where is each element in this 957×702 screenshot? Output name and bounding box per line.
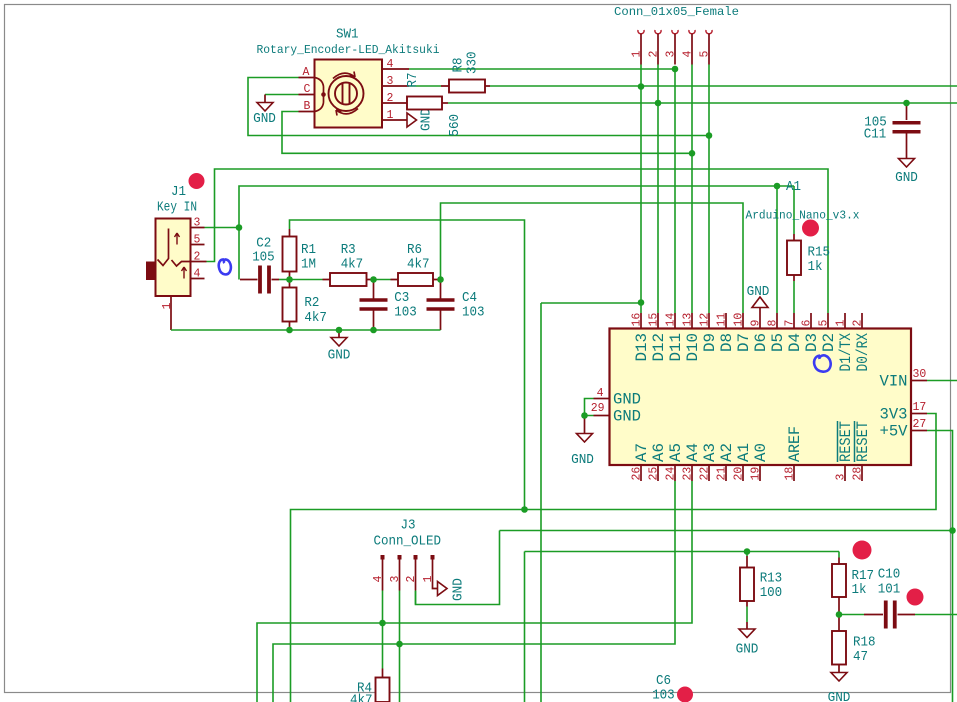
svg-text:330: 330 — [465, 52, 481, 75]
wire conn pin2 / D12 column — [657, 65, 659, 314]
annotation red dot near A1 — [802, 220, 819, 237]
connector pin 5 lead — [708, 34, 710, 65]
svg-text:D4: D4 — [786, 333, 804, 352]
svg-text:A2: A2 — [718, 443, 736, 462]
resistor R1 body — [283, 237, 297, 272]
svg-text:D1/TX: D1/TX — [837, 332, 855, 371]
svg-text:25: 25 — [648, 467, 661, 481]
svg-text:GND: GND — [613, 391, 641, 409]
capacitor C2 leads — [240, 279, 279, 281]
svg-text:3: 3 — [389, 576, 402, 583]
wire down to R15 — [793, 186, 795, 234]
svg-text:4: 4 — [387, 58, 394, 71]
annotation blue scribble near J1 pin2 — [219, 259, 231, 274]
svg-text:RESET: RESET — [837, 421, 855, 462]
wire R17 top — [838, 552, 840, 558]
pin 1 (D1/TX) — [844, 313, 846, 329]
ground — [257, 103, 273, 112]
svg-text:+5V: +5V — [880, 423, 909, 441]
svg-text:5: 5 — [818, 320, 831, 327]
svg-text:2: 2 — [648, 51, 661, 58]
pin 2 (D0/RX) — [861, 313, 863, 329]
svg-text:A0: A0 — [752, 443, 770, 462]
svg-text:Conn_01x05_Female: Conn_01x05_Female — [614, 5, 739, 19]
ground — [739, 629, 755, 638]
svg-text:1: 1 — [835, 320, 848, 327]
resistor R4 leads — [382, 669, 384, 678]
svg-text:2: 2 — [852, 320, 865, 327]
pin 15 (D12) — [657, 313, 659, 329]
svg-text:D10: D10 — [684, 333, 702, 362]
svg-text:1: 1 — [422, 576, 435, 583]
capacitor C11 stem — [906, 103, 908, 120]
resistor R2 leads — [289, 280, 291, 331]
svg-text:9: 9 — [750, 320, 763, 327]
ground stem — [759, 308, 761, 314]
pin 25 (A6) — [657, 465, 659, 481]
svg-text:1: 1 — [161, 303, 174, 310]
svg-text:14: 14 — [665, 313, 678, 327]
junction node R1/R2/C2/R3 — [286, 276, 293, 283]
Arduino Nano A1 body — [610, 329, 912, 466]
svg-text:Key IN: Key IN — [157, 200, 197, 216]
junction node R6/C4 — [437, 276, 444, 283]
junction node 3V3 — [521, 506, 528, 513]
svg-text:4k7: 4k7 — [304, 310, 327, 326]
pin 3 (RESET) — [844, 465, 846, 481]
svg-text:4: 4 — [682, 51, 695, 58]
pin 5 (D2) — [827, 313, 829, 329]
svg-text:D2: D2 — [820, 333, 838, 352]
svg-text:1M: 1M — [301, 257, 316, 273]
ground stem — [584, 416, 586, 434]
resistor R13 body — [740, 568, 754, 602]
svg-text:103: 103 — [394, 305, 417, 321]
pin 28 (RESET) — [861, 465, 863, 481]
svg-text:D13: D13 — [633, 333, 651, 362]
resistor R8 body — [449, 80, 485, 93]
svg-text:C: C — [304, 83, 311, 96]
svg-text:7: 7 — [784, 320, 797, 327]
junction node A / conn5 — [706, 132, 713, 139]
svg-text:16: 16 — [631, 313, 644, 327]
resistor R3 body — [330, 273, 367, 286]
pin 20 (A1) — [742, 465, 744, 481]
svg-text:GND: GND — [328, 348, 351, 364]
junction node rail R2 — [286, 327, 293, 334]
svg-text:D12: D12 — [650, 333, 668, 362]
junction node R3/C3/R6 — [370, 276, 377, 283]
svg-text:A4: A4 — [684, 443, 702, 462]
svg-text:D5: D5 — [769, 333, 787, 352]
connector pin 2 lead — [657, 34, 659, 65]
svg-text:1: 1 — [387, 109, 394, 122]
wire J3 pin2 down — [415, 591, 417, 605]
svg-text:4: 4 — [372, 576, 385, 583]
pin 12 (D9) — [708, 313, 710, 329]
annotation blue scribble near D2 pin label — [814, 355, 831, 371]
svg-text:4: 4 — [194, 268, 201, 281]
svg-text:GND: GND — [253, 111, 276, 127]
svg-text:29: 29 — [591, 402, 605, 415]
wire R8 to right edge — [490, 85, 957, 87]
wire node to R6 — [374, 279, 391, 281]
svg-text:103: 103 — [652, 688, 675, 702]
svg-text:17: 17 — [913, 401, 927, 414]
svg-text:A1: A1 — [786, 179, 801, 195]
capacitor C10 plates — [886, 601, 895, 629]
connector pin 3 lead — [674, 34, 676, 65]
resistor R1 leads — [289, 229, 291, 280]
resistor R15 leads — [793, 234, 795, 281]
pin 27 (+5V) — [911, 430, 927, 432]
svg-text:30: 30 — [913, 368, 927, 381]
svg-text:28: 28 — [852, 467, 865, 481]
capacitor C11 plates — [893, 123, 921, 132]
wire key node down to C2 — [238, 228, 240, 280]
ground stem — [338, 330, 340, 338]
wire to D13 — [541, 302, 641, 304]
connector J1 Key IN — [146, 219, 207, 331]
pin 29 (GND) — [594, 415, 610, 417]
junction node R7 / conn2 — [655, 100, 662, 107]
ground — [831, 673, 847, 682]
pin 7 (D4) — [793, 313, 795, 329]
svg-text:SW1: SW1 — [336, 27, 359, 43]
svg-text:A5: A5 — [667, 443, 685, 462]
ground (pointing right) — [407, 113, 417, 127]
wire R1 top to 3V3 net — [290, 220, 525, 510]
J3 pin 2 — [414, 555, 418, 560]
ground — [577, 434, 593, 443]
wire conn pin1 / D13 column — [640, 65, 642, 314]
svg-text:23: 23 — [682, 467, 695, 481]
junction node +5V — [949, 527, 956, 534]
svg-text:GND: GND — [895, 170, 918, 186]
wire 3V3 net — [291, 414, 937, 702]
svg-text:AREF: AREF — [786, 426, 804, 462]
svg-text:D11: D11 — [667, 333, 685, 362]
wire C10 to right edge — [915, 614, 957, 616]
wire R6/C4 node to Arduino D7 — [441, 203, 744, 313]
rotary encoder SW1 — [299, 60, 410, 128]
svg-text:5: 5 — [194, 234, 201, 247]
junction node SW1 pin4 / conn3 — [672, 66, 679, 73]
resistor R7 leads — [442, 102, 448, 104]
svg-text:D9: D9 — [701, 333, 719, 352]
svg-text:3: 3 — [835, 474, 848, 481]
svg-text:4: 4 — [597, 387, 604, 400]
wire R13 top — [746, 552, 748, 557]
annotation red dot near C10 — [907, 589, 924, 606]
connector pin 2 socket — [655, 30, 661, 34]
junction node R17/R18/C10 — [836, 611, 843, 618]
svg-text:3: 3 — [387, 75, 394, 88]
ground (pointing up) — [752, 297, 768, 308]
junction node R13 — [744, 548, 751, 555]
connector pin 5 socket — [706, 30, 712, 34]
wire R13 bottom — [746, 607, 748, 623]
wire R13/R17 net — [525, 551, 840, 553]
resistor R18 leads — [838, 615, 840, 673]
svg-text:105: 105 — [252, 250, 275, 266]
svg-text:3: 3 — [665, 51, 678, 58]
pin 21 (A2) — [725, 465, 727, 481]
connector pin 3 socket — [672, 30, 678, 34]
wire SW1 pin3 to R8 — [409, 85, 441, 87]
wire J3 pin4 to R4 — [382, 591, 384, 669]
resistor R18 body — [832, 631, 846, 665]
wire conn pin3 / D11 column — [674, 69, 676, 313]
junction node rail C3 — [370, 327, 377, 334]
wire SW1-B to conn pin4 — [282, 112, 692, 154]
connector pin 1 lead — [640, 34, 642, 65]
svg-text:GND: GND — [451, 578, 467, 601]
svg-text:101: 101 — [878, 582, 901, 598]
junction node key / D5 — [774, 183, 781, 190]
svg-text:RESET: RESET — [854, 421, 872, 462]
svg-text:103: 103 — [462, 305, 485, 321]
wire J3 pin3 down — [399, 591, 401, 702]
resistor R8 leads — [441, 85, 490, 87]
pin 22 (A3) — [708, 465, 710, 481]
pin 10 (D7) — [742, 313, 744, 329]
svg-text:4k7: 4k7 — [407, 257, 430, 273]
junction node B / conn4 — [689, 150, 696, 157]
wire R15 to D4 — [793, 281, 795, 313]
wire C2 to node — [279, 279, 290, 281]
svg-text:3: 3 — [194, 217, 201, 230]
wire down from D13 node — [540, 303, 542, 702]
wire Arduino A4 net — [257, 481, 692, 702]
svg-text:2: 2 — [405, 576, 418, 583]
pin 4 (GND) — [594, 398, 610, 400]
wire R7 to right edge — [448, 102, 957, 104]
svg-text:3V3: 3V3 — [880, 406, 908, 424]
svg-text:B: B — [304, 100, 311, 113]
wire down to Arduino D5 — [776, 186, 778, 313]
capacitor C4 plates — [427, 300, 455, 309]
svg-text:27: 27 — [913, 418, 927, 431]
ground stem — [746, 622, 748, 629]
wire +5V down right edge — [927, 431, 953, 702]
pin 23 (A4) — [691, 465, 693, 481]
svg-text:GND: GND — [571, 452, 594, 468]
svg-text:D3: D3 — [803, 333, 821, 352]
svg-text:A3: A3 — [701, 443, 719, 462]
pin 14 (D11) — [674, 313, 676, 329]
junction node A1 GND — [581, 412, 588, 419]
pin 13 (D10) — [691, 313, 693, 329]
svg-text:24: 24 — [665, 467, 678, 481]
connector pin 1 socket — [638, 30, 644, 34]
svg-text:4k7: 4k7 — [341, 257, 364, 273]
svg-text:A: A — [303, 66, 310, 79]
junction node J3 pin3 — [396, 641, 403, 648]
resistor R3 leads — [323, 279, 374, 281]
pin 16 (D13) — [640, 313, 642, 329]
svg-text:D8: D8 — [718, 333, 736, 352]
pin 9 (D6) — [759, 313, 761, 329]
svg-text:560: 560 — [447, 114, 463, 137]
svg-text:20: 20 — [733, 467, 746, 481]
svg-text:GND: GND — [736, 642, 759, 658]
wire Arduino A5 net — [273, 481, 675, 702]
svg-text:13: 13 — [682, 313, 695, 327]
svg-text:18: 18 — [784, 467, 797, 481]
junction node D13 — [638, 299, 645, 306]
ground — [899, 159, 915, 168]
svg-text:D0/RX: D0/RX — [854, 332, 872, 371]
svg-text:J1: J1 — [171, 184, 186, 200]
capacitor C3 plates — [360, 300, 388, 309]
wire node to R3 — [290, 279, 323, 281]
wire J1 pin2 to Arduino D2 — [207, 169, 829, 313]
pin 6 (D3) — [810, 313, 812, 329]
svg-text:GND: GND — [828, 690, 851, 702]
svg-text:47: 47 — [853, 649, 868, 665]
svg-text:GND: GND — [419, 108, 435, 131]
svg-text:A7: A7 — [633, 443, 651, 462]
wire GND pins join — [585, 399, 594, 416]
svg-text:26: 26 — [631, 467, 644, 481]
svg-text:19: 19 — [750, 467, 763, 481]
svg-text:VIN: VIN — [880, 373, 908, 391]
svg-text:6: 6 — [801, 320, 814, 327]
wire node to C10 — [839, 614, 864, 616]
junction node R8 / conn1 — [638, 83, 645, 90]
junction node rail GND — [336, 327, 343, 334]
annotation red dot near J1 — [189, 173, 205, 189]
wire SW1-A to conn pin5 — [248, 78, 709, 136]
resistor R6 leads — [391, 279, 441, 281]
wire J1 pin3 to node — [205, 227, 240, 229]
svg-text:A6: A6 — [650, 443, 668, 462]
wire key node to D5/R15 — [239, 186, 794, 228]
junction node J3 pin4 — [379, 620, 386, 627]
pin 11 (D8) — [725, 313, 727, 329]
svg-text:1k: 1k — [852, 582, 867, 598]
svg-text:2: 2 — [387, 92, 394, 105]
resistor R15 body — [787, 241, 801, 276]
connector pin 4 lead — [691, 34, 693, 65]
pin 17 (3V3) — [911, 413, 927, 415]
svg-text:Rotary_Encoder-LED_Akitsuki: Rotary_Encoder-LED_Akitsuki — [257, 43, 440, 57]
junction node key — [236, 224, 243, 231]
wire conn pin5 / D9 column — [708, 65, 710, 314]
wire VIN to right edge — [927, 380, 957, 382]
connector pin 4 socket — [689, 30, 695, 34]
pin 8 (D5) — [776, 313, 778, 329]
J3 pin 4 — [381, 555, 385, 560]
svg-text:22: 22 — [699, 467, 712, 481]
svg-text:Arduino_Nano_v3.x: Arduino_Nano_v3.x — [746, 209, 860, 223]
pin 26 (A7) — [640, 465, 642, 481]
wire SW1 pin4 to conn pin3 — [409, 68, 675, 70]
svg-text:2: 2 — [194, 251, 201, 264]
annotation red dot near R17 — [853, 541, 872, 560]
svg-text:GND: GND — [747, 284, 770, 300]
svg-text:R7: R7 — [405, 73, 421, 88]
capacitor C2 plates — [260, 266, 269, 294]
pin 30 (VIN) — [911, 380, 927, 382]
svg-text:A1: A1 — [735, 443, 753, 462]
svg-text:J3: J3 — [401, 518, 416, 534]
wire conn pin4 / D10 column — [691, 65, 693, 314]
junction node C11 — [903, 100, 910, 107]
svg-text:GND: GND — [613, 408, 641, 426]
svg-text:12: 12 — [699, 313, 712, 327]
resistor R7 body — [407, 97, 442, 110]
J3 pin 3 — [398, 555, 402, 560]
ground stem — [264, 95, 266, 103]
svg-text:D6: D6 — [752, 333, 770, 352]
wire down from R13 node — [524, 552, 526, 702]
svg-text:11: 11 — [716, 313, 729, 327]
J3 pin 1 — [431, 555, 435, 560]
svg-text:4k7: 4k7 — [350, 693, 373, 702]
svg-text:1: 1 — [631, 51, 644, 58]
resistor R2 body — [283, 288, 297, 322]
annotation red dot near C6 — [677, 687, 693, 702]
svg-text:C11: C11 — [864, 127, 887, 143]
svg-text:21: 21 — [716, 467, 729, 481]
pin 24 (A5) — [674, 465, 676, 481]
capacitor C3 leads — [373, 280, 375, 331]
wire SW1-C to GND — [265, 94, 299, 96]
svg-text:10: 10 — [733, 313, 746, 327]
wire ground rail — [171, 329, 441, 331]
pin 19 (A0) — [759, 465, 761, 481]
svg-text:100: 100 — [760, 585, 783, 601]
pin 18 (AREF) — [793, 465, 795, 481]
svg-text:5: 5 — [699, 51, 712, 58]
wire +5V branch — [500, 530, 953, 532]
svg-text:15: 15 — [648, 313, 661, 327]
svg-text:1k: 1k — [808, 259, 823, 275]
wire +5V to J3 pin2 — [416, 531, 500, 605]
capacitor C4 leads — [440, 280, 442, 331]
svg-text:D7: D7 — [735, 333, 753, 352]
svg-text:8: 8 — [767, 320, 780, 327]
resistor R6 body — [398, 273, 433, 286]
ground — [331, 338, 347, 347]
svg-text:R2: R2 — [304, 295, 319, 311]
svg-text:Conn_OLED: Conn_OLED — [374, 534, 442, 550]
ground (pointing right) at J3 pin1 — [438, 582, 448, 596]
resistor R17 body — [832, 564, 846, 597]
svg-text:C10: C10 — [878, 567, 901, 583]
